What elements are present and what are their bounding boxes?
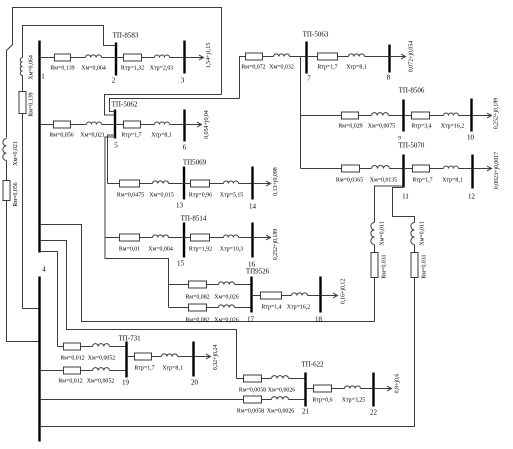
bus 7 xyxy=(305,42,307,74)
load arrow at bus 12 xyxy=(473,166,492,171)
svg-text:Xтр=10,3: Xтр=10,3 xyxy=(220,247,244,253)
wire xyxy=(210,183,224,185)
wire xyxy=(140,237,153,239)
wire to Rм=0,0475 xyxy=(108,183,120,185)
svg-text:ТП9526: ТП9526 xyxy=(246,268,270,276)
wire bus15 to Rтр xyxy=(184,237,191,239)
wire to bus 6 xyxy=(170,124,184,126)
svg-text:Rтр=1,7: Rтр=1,7 xyxy=(121,133,141,139)
wire to bus 17 xyxy=(235,307,251,309)
wire right shunt down and across to bus 4 xyxy=(40,278,415,427)
svg-text:ТП-731: ТП-731 xyxy=(118,335,141,343)
bus 8 xyxy=(388,45,390,73)
svg-text:ТП5069: ТП5069 xyxy=(183,159,207,167)
load arrow at bus 6 xyxy=(185,122,202,127)
svg-text:Xм=0,011: Xм=0,011 xyxy=(380,221,386,245)
svg-text:Xм=0,015: Xм=0,015 xyxy=(149,193,174,199)
resistor Rтр=1,7 (ТП-5063) xyxy=(318,53,338,60)
wire left chain to bus 4 xyxy=(7,201,40,342)
svg-text:Xм=0,0052: Xм=0,0052 xyxy=(87,379,115,385)
bus 10 xyxy=(470,99,472,132)
bus 15 xyxy=(183,223,185,258)
svg-text:ТП-622: ТП-622 xyxy=(301,361,324,369)
inductor Xтр=8,1 (ТП-5063) xyxy=(349,54,365,57)
svg-text:Xм=0,064: Xм=0,064 xyxy=(29,55,35,80)
inductor Xм=0,026 (upper) xyxy=(219,282,235,285)
wire xyxy=(262,378,272,380)
bus 14 xyxy=(251,167,253,200)
bus 22 xyxy=(372,373,374,407)
svg-text:3: 3 xyxy=(181,77,185,85)
svg-text:Xтр=3,25: Xтр=3,25 xyxy=(342,398,366,404)
svg-text:Rм=0,01: Rм=0,01 xyxy=(119,247,140,253)
resistor Rм=0,01 xyxy=(120,234,140,241)
svg-text:Rм=0,082: Rм=0,082 xyxy=(185,295,209,301)
load arrow at bus 10 xyxy=(472,113,492,118)
wire xyxy=(338,56,349,58)
svg-text:Xтр=2,03: Xтр=2,03 xyxy=(150,66,174,72)
svg-text:Xм=0,0026: Xм=0,0026 xyxy=(267,409,295,415)
wire bus21 to Rтр xyxy=(306,388,314,390)
wire xyxy=(282,295,292,297)
wire xyxy=(81,346,93,348)
svg-text:ТП-8514: ТП-8514 xyxy=(181,215,207,223)
wire xyxy=(210,237,224,239)
resistor Rм=0,082 (lower) xyxy=(189,304,207,311)
inductor Xм=0,004 xyxy=(153,235,169,238)
svg-text:6: 6 xyxy=(183,144,187,152)
svg-text:Rм=0,029: Rм=0,029 xyxy=(338,124,362,130)
bus 17 xyxy=(250,277,252,313)
wire xyxy=(22,76,24,92)
svg-text:Rм=0,0058: Rм=0,0058 xyxy=(239,388,266,394)
inductor Xтр=10,3 xyxy=(224,235,239,238)
load arrow at bus 16 xyxy=(253,235,271,240)
resistor Rм=0,0365 xyxy=(342,165,360,172)
svg-text:0,8+j0,6: 0,8+j0,6 xyxy=(395,374,401,394)
inductor Xм=0,064 (chain to bus 4) xyxy=(20,58,22,76)
wire to bus 17 xyxy=(235,284,251,286)
inductor Xтр=5,15 xyxy=(224,181,239,183)
svg-text:Xм=0,026: Xм=0,026 xyxy=(214,318,239,324)
svg-text:Rм=0,0475: Rм=0,0475 xyxy=(117,193,144,199)
svg-text:Rтр=3,4: Rтр=3,4 xyxy=(411,124,431,130)
wire to bus 2 xyxy=(102,57,115,59)
svg-text:Rм=0,139: Rм=0,139 xyxy=(50,66,74,72)
wire to upper Rм=0,0058 xyxy=(237,378,244,380)
svg-text:Rм=0,056: Rм=0,056 xyxy=(49,133,73,139)
wire to bus 11 xyxy=(390,168,403,170)
bus 1 xyxy=(38,41,40,253)
svg-text:Rтр=1,4: Rтр=1,4 xyxy=(261,305,281,311)
svg-text:Xтр=8,1: Xтр=8,1 xyxy=(442,178,463,184)
svg-text:0,16+j0,12: 0,16+j0,12 xyxy=(341,279,347,305)
svg-text:ТП-8583: ТП-8583 xyxy=(113,32,139,40)
resistor Rм=0,029 xyxy=(342,112,359,119)
wire to bus 22 xyxy=(361,388,373,390)
svg-text:0,054+j0,04: 0,054+j0,04 xyxy=(204,110,210,139)
inductor Xм=0,011 (left shunt) xyxy=(371,223,375,245)
wire bus5 to Rтр xyxy=(115,124,124,126)
wire to bus 7 xyxy=(290,56,306,58)
wire bus11 to Rтр xyxy=(404,168,413,170)
wire to lower Rм=0,082 xyxy=(169,307,189,309)
inductor Xм=0,011 (right shunt) xyxy=(411,223,415,245)
svg-text:2: 2 xyxy=(112,77,116,85)
wire xyxy=(332,388,345,390)
inductor Xм=0,0026 (upper) xyxy=(272,376,289,379)
svg-text:17: 17 xyxy=(247,316,255,324)
wire bus 11 to left shunt branch xyxy=(375,186,404,223)
resistor Rм=0,082 (upper) xyxy=(189,281,207,288)
wire L2 node 7 input to bus 5 top xyxy=(110,99,240,112)
resistor Rтр=1,7 (ТП-731) xyxy=(135,353,152,360)
bus 5 xyxy=(114,110,116,139)
resistor Rтр=3,4 xyxy=(412,112,430,119)
wire to bus 15 xyxy=(169,237,183,239)
svg-text:Rм=0,0058: Rм=0,0058 xyxy=(237,409,264,415)
inductor Xтр=16,2 xyxy=(444,113,459,116)
resistor Rтр=1,92 xyxy=(191,234,210,241)
wire xyxy=(374,245,376,253)
svg-text:Rтр=1,32: Rтр=1,32 xyxy=(121,66,144,72)
wire bus7 to Rтр xyxy=(307,56,318,58)
wire to bus 14 xyxy=(239,183,252,185)
svg-text:11: 11 xyxy=(402,193,409,201)
bus 6 xyxy=(183,110,185,142)
bus 16 xyxy=(251,223,253,258)
svg-text:15: 15 xyxy=(177,260,185,268)
bus 19 xyxy=(125,342,127,378)
wire xyxy=(359,115,372,117)
svg-text:4: 4 xyxy=(42,266,46,274)
svg-text:8: 8 xyxy=(387,74,391,82)
wire xyxy=(142,57,155,59)
resistor Rм=0,072 xyxy=(246,53,263,60)
svg-text:Rтр=1,7: Rтр=1,7 xyxy=(134,366,154,372)
resistor Rм=0,0058 (upper) xyxy=(244,375,262,382)
inductor Xм=0,0135 xyxy=(372,166,390,169)
wire feeder bus 5 to ТП5069 input xyxy=(108,135,116,184)
inductor Xтр=2,03 xyxy=(155,55,170,57)
wire left shunt down xyxy=(374,278,376,322)
svg-text:Rтр=0,96: Rтр=0,96 xyxy=(189,193,212,199)
svg-text:0,072+j0,054: 0,072+j0,054 xyxy=(409,41,415,73)
resistor Rтр=0,96 xyxy=(191,180,210,187)
svg-text:Rтр=1,7: Rтр=1,7 xyxy=(317,65,337,71)
wire bus 11 to right shunt branch xyxy=(393,188,415,223)
wire bus13 to Rтр xyxy=(184,183,191,185)
svg-text:Rтр=1,92: Rтр=1,92 xyxy=(189,247,212,253)
resistor Rтр=0,6 xyxy=(314,385,332,392)
wire to bus 21 xyxy=(289,399,305,401)
wire node L1 to bus 5 xyxy=(105,95,222,116)
resistor Rм=0,139 (chain to bus 4) xyxy=(19,92,26,114)
svg-text:18: 18 xyxy=(315,316,323,324)
inductor Xм=0,032 xyxy=(274,54,290,57)
inductor Xм=0,021 (left line chain) xyxy=(3,139,7,161)
resistor Rтр=1,4 xyxy=(261,292,282,299)
wire xyxy=(81,370,93,372)
wire to upper Rм=0,012 xyxy=(58,346,64,348)
wire xyxy=(71,124,87,126)
wire to bus 10 xyxy=(459,115,471,117)
svg-text:Xм=0,021: Xм=0,021 xyxy=(80,133,105,139)
bus 9 xyxy=(402,100,404,132)
svg-text:Xм=0,021: Xм=0,021 xyxy=(13,141,19,166)
inductor Xтр=8,1 (ТП-731) xyxy=(162,354,178,357)
inductor Xм=0,0026 (lower) xyxy=(272,397,289,400)
bus 18 xyxy=(319,277,321,313)
wire frame from node L1 down left side to line X/R chain xyxy=(7,8,222,138)
svg-text:0,252+j0,189: 0,252+j0,189 xyxy=(494,98,500,130)
resistor Rтр=1,7 (ТП-5070) xyxy=(413,165,430,172)
wire to bus 9 xyxy=(389,115,403,117)
svg-text:5: 5 xyxy=(114,142,118,150)
wire bus 4 to lower Rм=0,012 xyxy=(40,370,64,372)
inductor Xм=0,0052 (lower) xyxy=(93,368,110,371)
wire C bus 1 to ТП-731 upper input xyxy=(40,252,58,347)
wire bus17 to Rтр xyxy=(252,295,261,297)
inductor Xм=0,021 (line 1-5) xyxy=(87,122,102,124)
wire xyxy=(152,356,162,358)
svg-text:14: 14 xyxy=(249,203,257,211)
svg-text:0,0023+j0,0017: 0,0023+j0,0017 xyxy=(494,152,500,189)
svg-text:Rм=0,031: Rм=0,031 xyxy=(422,254,428,278)
load arrow at bus 14 xyxy=(253,181,271,186)
wire to bus 5 xyxy=(102,124,114,126)
svg-text:Xтр=16,2: Xтр=16,2 xyxy=(287,305,311,311)
wire xyxy=(430,115,444,117)
resistor Rм=0,0058 (lower) xyxy=(244,396,262,403)
svg-text:7: 7 xyxy=(307,75,311,83)
load arrow at bus 20 xyxy=(194,354,211,359)
svg-text:0,252+j0,189: 0,252+j0,189 xyxy=(273,229,279,261)
wire to bus 19 xyxy=(110,346,126,348)
svg-text:ТП-5063: ТП-5063 xyxy=(303,31,329,39)
wire bus9 to Rтр xyxy=(404,115,412,117)
svg-text:Rм=0,056: Rм=0,056 xyxy=(13,182,19,206)
svg-text:Xм=0,0135: Xм=0,0135 xyxy=(370,178,398,184)
wire to bus 16 xyxy=(239,237,252,239)
wire xyxy=(360,168,372,170)
svg-text:ТП-5062: ТП-5062 xyxy=(112,101,138,109)
svg-text:Xтр=8,1: Xтр=8,1 xyxy=(151,133,172,139)
svg-text:Rм=0,082: Rм=0,082 xyxy=(185,318,209,324)
inductor Xтр=16,2 (ТП9526) xyxy=(292,293,308,296)
resistor Rм=0,139 (line 1-2) xyxy=(55,54,71,61)
svg-text:Xм=0,064: Xм=0,064 xyxy=(81,66,106,72)
wire node 7 input drop to lower feeders xyxy=(300,57,302,169)
bus 4 xyxy=(38,277,40,442)
svg-text:10: 10 xyxy=(467,134,475,142)
wire xyxy=(71,57,86,59)
svg-text:12: 12 xyxy=(468,193,476,201)
inductor Xтр=3,25 xyxy=(345,386,361,389)
inductor Xм=0,064 (line 1-2) xyxy=(86,55,102,58)
bus 20 xyxy=(192,342,194,377)
wire bus1 to Rм=0,139 xyxy=(40,57,55,59)
svg-text:1: 1 xyxy=(41,73,45,81)
wire xyxy=(141,124,155,126)
inductor Xтр=8,1 (ТП-5062) xyxy=(155,122,170,124)
svg-text:ТП-5070: ТП-5070 xyxy=(399,142,425,150)
wire bus 4 to lower Rм=0,0058 xyxy=(40,399,244,401)
resistor Rм=0,056 (line 1-5) xyxy=(54,121,71,128)
wire xyxy=(263,56,274,58)
wire to bus 12 xyxy=(459,168,472,170)
wire xyxy=(414,245,416,253)
bus 2 xyxy=(115,43,117,76)
wire bus2 to Rтр xyxy=(116,57,124,59)
svg-text:Xтр=8,1: Xтр=8,1 xyxy=(162,366,183,372)
wire xyxy=(207,307,219,309)
svg-text:Rм=0,012: Rм=0,012 xyxy=(58,379,82,385)
wire from bus 2 top to left chain 1 xyxy=(23,26,117,58)
inductor Xм=0,0052 (upper) xyxy=(93,344,110,347)
svg-text:Rтр=0,6: Rтр=0,6 xyxy=(312,398,332,404)
svg-text:1,54+j1,15: 1,54+j1,15 xyxy=(206,43,212,69)
resistor Rтр=1,7 (ТП-5062) xyxy=(124,121,141,128)
svg-text:Xм=0,004: Xм=0,004 xyxy=(148,247,173,253)
wire to upper Rм=0,082 xyxy=(169,284,189,286)
svg-text:21: 21 xyxy=(302,408,310,416)
wire to bus 3 xyxy=(170,57,184,59)
wire to bus 20 xyxy=(178,356,193,358)
resistor Rтр=1,32 xyxy=(124,54,142,61)
svg-text:Rм=0,139: Rм=0,139 xyxy=(29,92,35,116)
wire A bus 1 to left shunt branch xyxy=(40,225,375,322)
resistor Rм=0,0475 xyxy=(120,180,140,187)
svg-text:Xм=0,0026: Xм=0,0026 xyxy=(268,388,296,394)
wire to bus 8 xyxy=(365,56,389,58)
wire feeder to ТП-5070 input xyxy=(301,168,342,170)
wire bus1 to Rм=0,056 xyxy=(40,124,54,126)
bus 13 xyxy=(183,167,185,200)
svg-text:Rм=0,012: Rм=0,012 xyxy=(60,356,84,362)
resistor Rм=0,031 (right shunt) xyxy=(411,253,418,278)
wire bus19 to Rтр xyxy=(127,356,135,358)
wire chain 1 to bus 4 xyxy=(23,114,40,309)
wire xyxy=(140,183,153,185)
bus 12 xyxy=(471,155,473,189)
svg-text:Rм=0,0365: Rм=0,0365 xyxy=(336,178,363,184)
svg-text:Rтр=1,7: Rтр=1,7 xyxy=(412,178,432,184)
bus 11 xyxy=(402,155,404,188)
wire to Rм=0,01 xyxy=(105,237,120,239)
bus 3 xyxy=(183,41,185,74)
wire xyxy=(430,168,444,170)
load arrow at bus 3 xyxy=(185,55,204,60)
svg-text:22: 22 xyxy=(370,409,378,417)
svg-text:Xм=0,032: Xм=0,032 xyxy=(269,65,294,71)
wire xyxy=(207,284,219,286)
svg-text:Xм=0,0052: Xм=0,0052 xyxy=(88,356,116,362)
resistor Rм=0,012 (lower) xyxy=(64,367,81,374)
svg-text:Xм=0,0075: Xм=0,0075 xyxy=(368,124,396,130)
inductor Xтр=8,1 (ТП-5070) xyxy=(444,166,459,168)
svg-text:Rм=0,031: Rм=0,031 xyxy=(382,254,388,278)
svg-text:0,32+j0,24: 0,32+j0,24 xyxy=(213,345,219,371)
resistor Rм=0,031 (left shunt) xyxy=(371,253,378,278)
svg-text:20: 20 xyxy=(191,379,199,387)
wire to bus 19 xyxy=(110,370,126,372)
svg-text:13: 13 xyxy=(176,202,184,210)
load arrow at bus 8 xyxy=(390,54,406,59)
wire feeder bus 5 to ТП-8514 and ТП9526 xyxy=(105,137,169,308)
svg-text:19: 19 xyxy=(122,379,130,387)
svg-text:Xтр=8,1: Xтр=8,1 xyxy=(346,65,367,71)
wire to bus 21 xyxy=(289,378,305,380)
wire xyxy=(6,161,8,181)
wire feeder to ТП-8506 input xyxy=(301,115,342,117)
svg-text:Xм=0,011: Xм=0,011 xyxy=(420,221,426,245)
resistor Rм=0,056 (left line chain) xyxy=(3,181,10,201)
svg-text:Rм=0,072: Rм=0,072 xyxy=(241,65,265,71)
resistor Rм=0,012 (upper) xyxy=(64,343,81,350)
svg-text:Xтр=16,2: Xтр=16,2 xyxy=(441,124,465,130)
wire feed down-corner to ТП-5063 input xyxy=(240,57,246,99)
inductor Xм=0,026 (lower) xyxy=(219,305,235,308)
wire to bus 13 xyxy=(169,183,183,185)
wire xyxy=(262,399,272,401)
svg-text:Xтр=5,15: Xтр=5,15 xyxy=(220,193,244,199)
load arrow at bus 18 xyxy=(321,293,338,298)
wire B bus 1 to ТП-622 upper input xyxy=(40,241,237,379)
svg-text:Xм=0,026: Xм=0,026 xyxy=(214,295,239,301)
wire to bus 18 xyxy=(308,295,320,297)
svg-text:0,13+j0,098: 0,13+j0,098 xyxy=(273,167,279,196)
bus 21 xyxy=(304,373,306,407)
load arrow at bus 22 xyxy=(374,386,392,391)
svg-text:ТП-8506: ТП-8506 xyxy=(399,87,425,95)
inductor Xм=0,015 xyxy=(153,181,169,184)
inductor Xм=0,0075 xyxy=(372,113,389,116)
